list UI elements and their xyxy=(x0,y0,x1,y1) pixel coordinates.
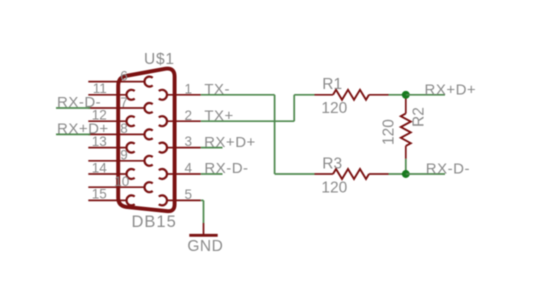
pin 12 of U$1 (line + number) xyxy=(88,108,126,123)
U$1 contact arcs column A (pins 11-15) xyxy=(126,90,134,206)
svg-text:3: 3 xyxy=(185,134,193,149)
R1 value 120 xyxy=(321,100,347,117)
svg-text:R1: R1 xyxy=(322,76,342,93)
svg-text:RX+D+: RX+D+ xyxy=(425,81,477,98)
pin 4 of U$1 (line + number) xyxy=(167,161,201,176)
net wire R2 bottom to junction xyxy=(405,159,407,174)
pin 5 of U$1 (line + number) xyxy=(167,187,201,202)
pin 10 of U$1 (line + number) xyxy=(88,174,144,189)
pin 13 of U$1 (line + number) xyxy=(88,134,126,149)
svg-text:RX+D+: RX+D+ xyxy=(204,134,256,151)
U$1 contact arcs column B (pins 6-10) xyxy=(144,77,152,193)
svg-text:RX-D-: RX-D- xyxy=(57,94,101,111)
net label TX+ xyxy=(204,107,233,124)
pin 1 of U$1 (line + number) xyxy=(167,81,201,96)
pin 8 of U$1 (line + number) xyxy=(88,121,144,136)
pin 15 of U$1 (line + number) xyxy=(88,187,126,202)
net wire RX-D- (right) xyxy=(406,173,445,175)
U$1 contact arcs column C (pins 1-5) xyxy=(159,90,167,206)
svg-text:DB15: DB15 xyxy=(132,213,177,231)
pin 6 of U$1 (line + number) xyxy=(88,68,144,83)
net label RX+D+ (right) xyxy=(425,81,477,98)
U$1 reference label xyxy=(144,51,175,68)
svg-text:6: 6 xyxy=(120,68,128,83)
svg-text:4: 4 xyxy=(185,161,193,176)
net wire R3 to junction xyxy=(389,173,406,175)
resistor R3 xyxy=(315,169,389,179)
svg-text:120: 120 xyxy=(321,100,347,117)
pin 2 of U$1 (line + number) xyxy=(167,108,201,123)
svg-text:120: 120 xyxy=(321,180,347,197)
R2 name label xyxy=(411,107,428,127)
net label RX-D- (right) xyxy=(426,161,470,178)
junction dot upper (RX+D+ node) xyxy=(402,91,410,99)
svg-text:7: 7 xyxy=(120,95,128,110)
net label RX-D- (left) xyxy=(57,94,101,111)
svg-text:R3: R3 xyxy=(322,155,342,172)
connector U$1 body (DB15 shell) xyxy=(118,69,174,212)
net wire R1 to junction xyxy=(389,94,406,96)
net wire TX+ : pin2 right, up, to R1 xyxy=(201,95,315,121)
svg-text:5: 5 xyxy=(185,187,193,202)
resistor R1 xyxy=(315,90,389,100)
ground symbol GND xyxy=(189,223,217,235)
R3 name label xyxy=(322,155,342,172)
pin 3 of U$1 (line + number) xyxy=(167,134,201,149)
pin 11 of U$1 (line + number) xyxy=(88,81,126,96)
DB15 value label xyxy=(132,213,177,231)
net label TX- xyxy=(204,81,230,98)
GND label xyxy=(187,238,223,255)
R3 value 120 xyxy=(321,180,347,197)
svg-text:1: 1 xyxy=(185,81,193,96)
net label RX-D- (pin 4) xyxy=(204,160,248,177)
net wire RX+D+ (right) xyxy=(406,94,445,96)
svg-text:R2: R2 xyxy=(411,107,428,127)
svg-text:10: 10 xyxy=(114,174,129,189)
pin 7 of U$1 (line + number) xyxy=(88,95,144,110)
net wire TX- : pin1 right, down, to R3 xyxy=(201,95,315,174)
pin 14 of U$1 (line + number) xyxy=(88,160,126,175)
svg-text:120: 120 xyxy=(381,119,398,145)
svg-text:TX-: TX- xyxy=(204,81,230,98)
net wire pin5 to GND xyxy=(201,200,204,223)
net label RX+D+ (left) xyxy=(57,120,109,137)
svg-text:RX+D+: RX+D+ xyxy=(57,120,109,137)
svg-text:8: 8 xyxy=(120,121,128,136)
junction dot lower (RX-D- node) xyxy=(402,170,410,178)
svg-text:RX-D-: RX-D- xyxy=(204,160,248,177)
pin 9 of U$1 (line + number) xyxy=(88,148,144,163)
resistor R2 xyxy=(401,95,411,159)
svg-text:RX-D-: RX-D- xyxy=(426,161,470,178)
net wire RX-D- to pin 7 xyxy=(56,107,90,109)
svg-text:U$1: U$1 xyxy=(144,51,175,68)
net label RX+D+ (pin 3) xyxy=(204,134,256,151)
R1 name label xyxy=(322,76,342,93)
svg-text:GND: GND xyxy=(187,238,223,255)
svg-text:2: 2 xyxy=(185,108,193,123)
net wire RX+D+ to pin 8 xyxy=(56,133,90,135)
svg-text:TX+: TX+ xyxy=(204,107,233,124)
svg-text:14: 14 xyxy=(92,160,108,175)
R2 value 120 xyxy=(381,119,398,145)
net wire stub pin 3 xyxy=(201,147,223,149)
net wire stub pin 4 xyxy=(201,173,223,175)
svg-text:15: 15 xyxy=(92,187,107,202)
svg-text:9: 9 xyxy=(120,148,128,163)
